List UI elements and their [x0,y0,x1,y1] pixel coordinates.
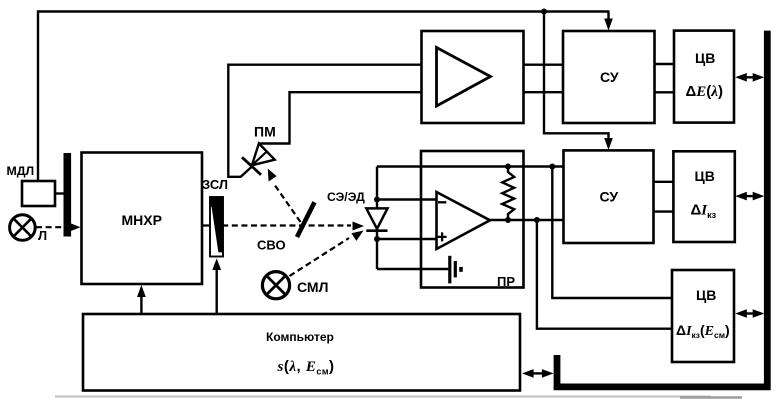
bus bar thick [557,31,767,387]
wire: МДЛ top to СУ line [38,12,610,182]
svg-text:ЗСЛ: ЗСЛ [202,177,228,192]
amplifier triangle [437,48,491,107]
double arrow ЦВ2 to bus [735,192,764,201]
wire: diode top to resistor and СУ2 [377,165,564,167]
slit ЗСЛ [202,177,228,257]
wire: arrow into СУ1 top [607,12,609,21]
wire: СУ2 to ЦВ2 line 2 [654,210,674,212]
resistor feedback [502,167,514,221]
op-amp plus sign [438,232,447,241]
scan artifact gray line [55,396,711,398]
wire: dashed beam lamp Л to МНХР [36,226,70,228]
wire: dashed beam СМЛ to СЭ/ЭД [290,238,350,276]
wire: branch to ЦВ3 lower [537,220,673,329]
box ЦВ2 [673,151,734,242]
box СУ1 [563,31,655,123]
wire: amplifier out 1 to СУ1 [524,63,564,65]
node: dot diode plus tap [374,236,380,242]
svg-text:СМЛ: СМЛ [297,279,328,295]
double arrow Компьютер to bus [522,369,554,378]
wire: computer to МНХР arrow [140,295,142,314]
box ЦВ1 [674,31,734,123]
wire: СУ1 to ЦВ1 line 1 [655,63,675,65]
svg-text:СУ: СУ [600,189,619,205]
wire: dashed beam МНХР to СЭ/ЭД [203,224,351,226]
wire: diode to op-amp plus input [377,238,437,240]
svg-text:МДЛ: МДЛ [7,164,35,178]
wire: op-amp output to СУ2 [490,219,564,221]
box СУ2 [564,150,654,243]
wire: branch from dot down and to СУ2 top [544,12,609,141]
wire: branch to ЦВ3 upper [552,167,673,299]
mirror ПМ [242,124,276,175]
wire: dashed beam СВО to ПМ [274,184,301,222]
wire: slit-area vertical to amplifier input 1 [228,65,421,177]
op-amp U1 [437,192,491,249]
box ЦВ3 [672,270,734,362]
ground symbol [450,256,461,284]
node: junction dot on top wire [541,9,547,15]
svg-text:СЭ/ЭД: СЭ/ЭД [327,190,365,204]
wire: СУ1 to ЦВ1 line 2 [655,91,675,93]
chopper СВО [257,202,315,252]
svg-text:Л: Л [38,228,47,243]
box amplifier [422,31,524,123]
node: dot diode minus tap [374,197,380,203]
entrance slit bar [64,153,72,237]
svg-text:ПМ: ПМ [254,124,276,140]
node: dot resistor top [505,164,511,170]
wire: amplifier out 2 to СУ1 [524,91,564,93]
wire: ПМ mirror to amplifier input 2 [259,92,421,143]
svg-text:МНХР: МНХР [122,212,162,228]
node: dot branch upper [549,164,555,170]
box Компьютер [83,314,520,391]
wire: diode to op-amp minus input [377,198,437,200]
svg-text:СВО: СВО [257,238,286,253]
double arrow ЦВ1 to bus [735,73,764,82]
svg-text:ЦВ: ЦВ [695,50,715,66]
wire: СУ2 to ЦВ2 line 1 [654,181,674,183]
double arrow ЦВ3 to bus [735,309,764,318]
photodiode СЭ/ЭД [327,190,388,231]
svg-text:ЦВ: ЦВ [696,287,716,303]
lamp Л [10,215,48,243]
wire: МДЛ stub to slit bar [55,192,64,194]
svg-text:Компьютер: Компьютер [266,330,334,344]
op-amp minus sign [438,201,446,203]
svg-text:ПР: ПР [497,274,515,289]
svg-text:ΔE(λ): ΔE(λ) [686,83,723,100]
box МДЛ [22,181,55,206]
svg-text:ЦВ: ЦВ [695,168,715,184]
lamp СМЛ [262,272,328,299]
wire: diode bottom to ground [377,268,448,270]
node: dot resistor bottom [505,217,511,223]
svg-text:СУ: СУ [600,69,619,85]
wire: photodiode vertical [376,167,378,270]
box МНХР [82,153,203,285]
node: dot branch lower [534,217,540,223]
box ПР (preamp) [421,151,524,288]
wire: computer to ЗСЛ slit arrow [215,269,217,314]
